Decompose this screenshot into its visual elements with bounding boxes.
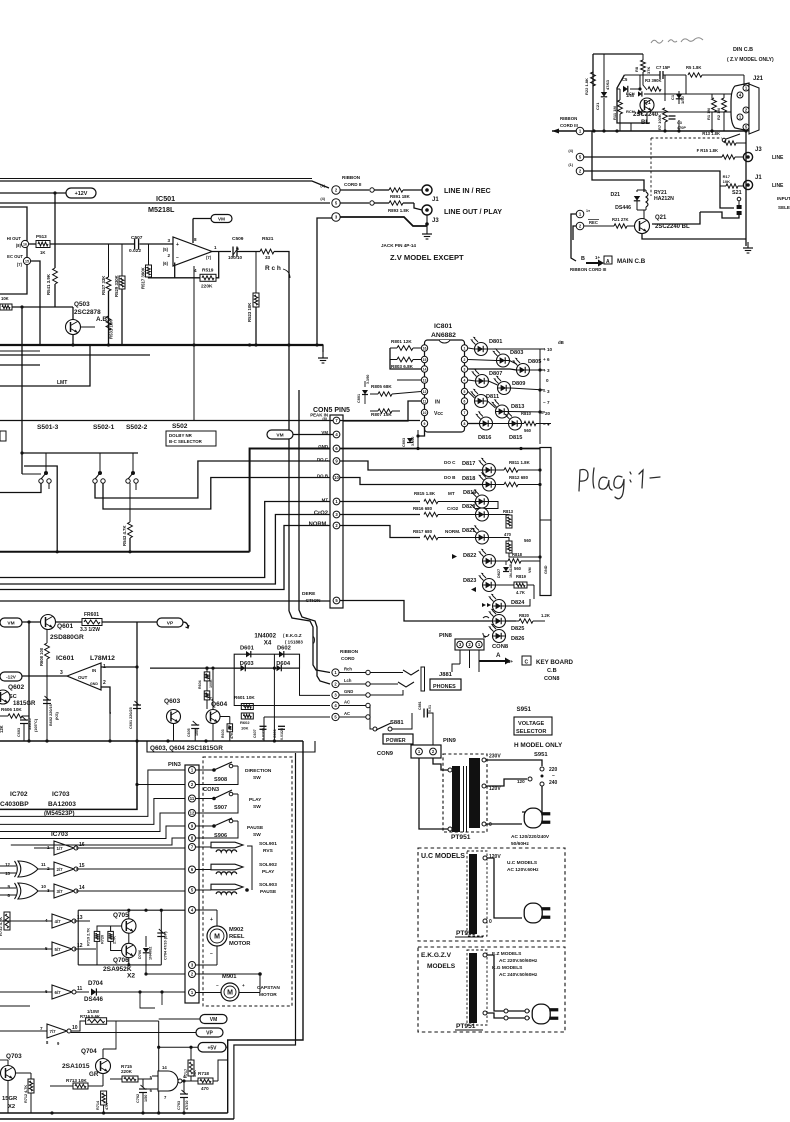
svg-text:3: 3 bbox=[167, 238, 170, 243]
transistor Q503 2SC2878 bbox=[66, 320, 81, 335]
wire rail to ribbon pin 5 bbox=[0, 202, 330, 204]
wire R801 loop bbox=[389, 348, 391, 360]
wire 230V tap bbox=[486, 760, 542, 766]
svg-text:SELECT: SELECT bbox=[778, 205, 790, 210]
capacitor C21 47/63 bbox=[603, 54, 605, 92]
bridge rectifier box bbox=[234, 654, 299, 668]
svg-text:C: C bbox=[525, 660, 529, 666]
svg-text:DO B: DO B bbox=[444, 475, 456, 480]
wire R521 out and down bbox=[274, 252, 289, 612]
svg-text:E.K.G.Z.V: E.K.G.Z.V bbox=[421, 952, 452, 959]
svg-text:− 7: − 7 bbox=[543, 400, 550, 405]
resistor R8 37K bbox=[642, 54, 644, 60]
wire Rch S-curve to pin1 bbox=[289, 611, 330, 673]
svg-text:S908: S908 bbox=[214, 777, 227, 783]
svg-text:1/50: 1/50 bbox=[680, 95, 685, 104]
wire relay to Q21 collector bbox=[643, 210, 645, 219]
capacitor C5 1/50 bbox=[623, 86, 628, 92]
wire AC pin5 row bbox=[264, 716, 330, 718]
svg-text:RIBBON: RIBBON bbox=[340, 649, 359, 654]
svg-text:Q603, Q604 2SC1815GR: Q603, Q604 2SC1815GR bbox=[150, 745, 223, 752]
wire pin2 left row bbox=[146, 973, 185, 975]
svg-text:GND: GND bbox=[318, 444, 328, 449]
svg-text:Q601: Q601 bbox=[57, 623, 73, 630]
svg-text:11: 11 bbox=[190, 796, 195, 801]
svg-text:470P: 470P bbox=[677, 126, 686, 130]
wire left stubs bbox=[0, 920, 20, 922]
svg-text:330/25: 330/25 bbox=[28, 718, 32, 730]
svg-text:J1: J1 bbox=[755, 175, 762, 181]
wire pin5 to J3 bbox=[340, 202, 369, 204]
symbol pause bbox=[483, 633, 489, 637]
wire DERECTION long row bbox=[0, 600, 330, 602]
capacitor C1 1/50 bbox=[676, 94, 682, 99]
switch selector box DOLBY NR B-C SELECTOR bbox=[166, 431, 216, 446]
wire R517 to inverting input bbox=[149, 276, 175, 279]
wire switch2 to DO rows bbox=[95, 461, 330, 498]
svg-text:R521: R521 bbox=[262, 236, 274, 242]
power +12V bbox=[66, 188, 96, 198]
svg-text:+5V: +5V bbox=[207, 1045, 217, 1051]
svg-text:R1 1M: R1 1M bbox=[706, 108, 711, 120]
svg-text:DIRECTION: DIRECTION bbox=[245, 768, 272, 774]
svg-text:B-C SELECTOR: B-C SELECTOR bbox=[169, 439, 203, 444]
wire rails verticals mid bbox=[140, 992, 155, 1008]
wire Q503 emitter bbox=[72, 334, 74, 345]
svg-text:D801: D801 bbox=[489, 339, 502, 345]
svg-text:C1: C1 bbox=[670, 94, 675, 100]
wire rails to con8 bbox=[533, 585, 535, 599]
svg-text:GND: GND bbox=[344, 689, 353, 694]
svg-text:R712 4.7K: R712 4.7K bbox=[24, 1085, 28, 1103]
svg-text:S951: S951 bbox=[517, 706, 532, 713]
svg-text:− ●: − ● bbox=[543, 422, 550, 427]
wire ekgzv plug bbox=[487, 955, 530, 1011]
svg-text:R818: R818 bbox=[512, 552, 523, 557]
LED D813 bbox=[496, 405, 509, 418]
svg-text:2: 2 bbox=[167, 253, 170, 258]
capacitor C704 47/10BP bbox=[160, 910, 162, 965]
gate NAND 901 bbox=[158, 1071, 178, 1091]
svg-text:R812 680: R812 680 bbox=[509, 475, 529, 480]
svg-text:R608 100: R608 100 bbox=[39, 647, 44, 666]
svg-text:R606 10K: R606 10K bbox=[1, 707, 22, 712]
wire q704 emitter bbox=[102, 1074, 104, 1086]
wire pin1B hook bbox=[571, 214, 576, 261]
wire q604 collector up bbox=[212, 668, 214, 709]
LED D824 bbox=[493, 600, 506, 613]
svg-text:OUT: OUT bbox=[78, 675, 88, 680]
svg-text:1.2K: 1.2K bbox=[541, 613, 550, 618]
wire con8 drops bbox=[459, 650, 461, 664]
svg-text:13: 13 bbox=[423, 379, 427, 383]
wire row2 to S21 bbox=[584, 171, 734, 208]
wire led to con8 bbox=[493, 605, 541, 607]
resistor R521 33 bbox=[260, 249, 274, 254]
wire DIN top rail bbox=[593, 53, 643, 55]
svg-text:CON9: CON9 bbox=[377, 751, 394, 757]
svg-text:PHONES: PHONES bbox=[433, 684, 456, 690]
wire uc plug bbox=[487, 858, 522, 918]
LED D805 bbox=[517, 364, 530, 377]
resistor R5 1.8K bbox=[688, 73, 702, 77]
svg-text:−: − bbox=[216, 983, 219, 988]
svg-text:AC 120V.60Hz: AC 120V.60Hz bbox=[507, 867, 539, 873]
wire VM feed bbox=[159, 1018, 200, 1020]
switch S501-3 bbox=[45, 453, 47, 471]
wire CrO2 long row bbox=[0, 515, 330, 585]
svg-text:R543 4.7K: R543 4.7K bbox=[122, 525, 127, 546]
resistor R5xx 10K bbox=[0, 304, 12, 310]
svg-text:AC 120/220/240V: AC 120/220/240V bbox=[511, 834, 550, 840]
svg-text:14: 14 bbox=[162, 1065, 167, 1070]
svg-text:PLAY: PLAY bbox=[249, 797, 262, 803]
svg-text:+: + bbox=[210, 917, 213, 923]
svg-text:(8): (8) bbox=[16, 243, 22, 248]
svg-text:VM: VM bbox=[276, 433, 283, 439]
capacitor B602 220/16 bbox=[43, 699, 51, 701]
svg-text:D815: D815 bbox=[509, 435, 522, 441]
wire cro2 row right bbox=[340, 514, 420, 516]
node ribbon III pin 1B bbox=[576, 210, 584, 218]
node IC801 pin 13 bbox=[421, 377, 427, 383]
svg-text:47K: 47K bbox=[230, 732, 234, 739]
wire do b row right bbox=[340, 478, 482, 485]
svg-text:CAPSTAN: CAPSTAN bbox=[257, 985, 280, 991]
wire norm riser right bbox=[544, 595, 546, 621]
svg-text:VP: VP bbox=[206, 1031, 213, 1037]
svg-text:RIBBON CORD III: RIBBON CORD III bbox=[570, 267, 606, 272]
svg-text:9: 9 bbox=[424, 422, 426, 426]
node ribbon pin 1 Rch bbox=[332, 669, 339, 676]
svg-text:+: + bbox=[176, 242, 179, 248]
svg-text:PT951: PT951 bbox=[456, 1023, 476, 1030]
svg-text:CORD: CORD bbox=[341, 656, 355, 661]
svg-text:AC: AC bbox=[344, 700, 350, 705]
svg-text:6/7: 6/7 bbox=[55, 990, 62, 995]
svg-text:120V: 120V bbox=[489, 854, 501, 860]
gate XOR A bbox=[18, 861, 38, 877]
svg-text:RVS: RVS bbox=[263, 848, 274, 854]
node CON3 pin 12 bbox=[189, 810, 196, 817]
solenoid SOL901 RVS bbox=[196, 846, 211, 848]
svg-text:3: 3 bbox=[47, 888, 50, 893]
wire Q21 emitter to ground rail bbox=[642, 234, 746, 239]
svg-text:CORD III: CORD III bbox=[560, 123, 578, 128]
wire switch1 left out bbox=[0, 483, 41, 493]
svg-text:R717: R717 bbox=[184, 1069, 188, 1078]
node ribbon III arrow bbox=[552, 129, 559, 134]
wire +12V drop bbox=[54, 193, 56, 268]
resistor R814 560 bbox=[506, 541, 512, 553]
node ribbon III pin 2 REC bbox=[576, 222, 584, 230]
svg-text:8: 8 bbox=[464, 422, 466, 426]
node ribbon III pin 5 bbox=[576, 153, 584, 161]
svg-text:DO C: DO C bbox=[444, 460, 456, 465]
box E.K.G.Z.V MODELS bbox=[418, 947, 565, 1032]
svg-text:470: 470 bbox=[201, 1086, 209, 1091]
node IC801 pin 4 bbox=[461, 377, 467, 383]
resistor R529 330K bbox=[121, 244, 123, 276]
svg-text:10K: 10K bbox=[723, 179, 730, 184]
node pin 16 HI OUT bbox=[21, 240, 28, 247]
capacitor C801 3.3/50 bbox=[362, 390, 368, 395]
svg-text:D21: D21 bbox=[610, 192, 620, 198]
svg-text:AC: AC bbox=[344, 711, 350, 716]
svg-text:R523 10K: R523 10K bbox=[247, 302, 252, 322]
svg-text:11: 11 bbox=[77, 986, 83, 992]
resistor R527 33K bbox=[108, 244, 110, 277]
node CON5 pin 2 bbox=[333, 522, 340, 529]
svg-text:(7): (7) bbox=[206, 255, 212, 260]
diode D706 1N4002 bbox=[145, 936, 147, 947]
transistor Q21 2SC2240 BL bbox=[635, 219, 650, 234]
svg-text:R805 68K: R805 68K bbox=[371, 384, 392, 389]
svg-text:1●: 1● bbox=[586, 209, 590, 213]
svg-text:2.7K: 2.7K bbox=[113, 936, 117, 944]
node CON3 pin 1 bbox=[189, 767, 196, 774]
svg-text:3: 3 bbox=[60, 670, 63, 676]
svg-text:D602: D602 bbox=[277, 646, 291, 652]
resistor R523 10K bbox=[255, 252, 257, 294]
node ribbon pin 3 GND bbox=[332, 691, 339, 698]
svg-text:CrO2: CrO2 bbox=[314, 511, 328, 517]
node IC801 pin 7 bbox=[461, 409, 467, 415]
svg-text:1+: 1+ bbox=[508, 659, 513, 664]
wire con3 left feeds bbox=[0, 770, 185, 816]
resistor R803 6.8K bbox=[390, 359, 397, 361]
wire pin8 row to D816 D815 bbox=[468, 423, 480, 425]
wire pin9 bottom bbox=[418, 427, 425, 436]
svg-text:240: 240 bbox=[549, 780, 558, 786]
svg-text:R21 27K: R21 27K bbox=[612, 217, 629, 222]
resistor R720 2.7K bbox=[108, 931, 114, 941]
wire Lch S-curve to pin2 bbox=[299, 390, 330, 684]
svg-text:LINE: LINE bbox=[772, 155, 784, 161]
svg-text:VOLTAGE: VOLTAGE bbox=[518, 721, 544, 727]
svg-text:PIN3: PIN3 bbox=[168, 762, 182, 768]
svg-text:DS446: DS446 bbox=[615, 205, 631, 211]
power oval +5V bbox=[198, 1043, 226, 1053]
svg-text:+: + bbox=[242, 983, 245, 988]
svg-text:DO B: DO B bbox=[317, 474, 328, 479]
wire reg out bbox=[101, 666, 137, 668]
wire pin15 down bbox=[31, 261, 40, 345]
label KEY BOARD bbox=[479, 658, 511, 665]
node IC801 pin 16 bbox=[421, 345, 427, 351]
svg-text:VP: VP bbox=[167, 621, 174, 627]
svg-text:0: 0 bbox=[546, 378, 549, 383]
wire P513 to C507 bbox=[50, 243, 135, 245]
svg-text:R816 680: R816 680 bbox=[413, 506, 433, 511]
resistor R11 1M bbox=[618, 100, 623, 114]
svg-text:C603: C603 bbox=[17, 728, 21, 737]
svg-text:DS446: DS446 bbox=[84, 996, 103, 1003]
node IC801 pin 5 bbox=[461, 388, 467, 394]
svg-text:PIN9: PIN9 bbox=[443, 738, 457, 744]
wire R541 to row bbox=[54, 284, 56, 307]
wire vm row bbox=[22, 621, 42, 623]
node CON5 pin 4 bbox=[333, 431, 340, 438]
svg-text:+ 10: + 10 bbox=[543, 347, 553, 352]
wire MT long row bbox=[0, 502, 330, 578]
plug AC main bbox=[524, 808, 542, 828]
svg-text:M901: M901 bbox=[222, 974, 237, 980]
capacitor C607 0.01/25 bbox=[260, 725, 267, 727]
wire C7 junctions bbox=[639, 75, 641, 89]
svg-text:PAUSE: PAUSE bbox=[247, 825, 264, 831]
svg-text:D825: D825 bbox=[511, 626, 524, 632]
wire switch feed top bbox=[22, 452, 138, 454]
wire q601 base drop bbox=[28, 622, 30, 741]
power VM oval op-amp bbox=[211, 215, 232, 223]
svg-text:Rch: Rch bbox=[344, 667, 352, 672]
resistor R519 220K bbox=[200, 274, 216, 281]
svg-text:47/63: 47/63 bbox=[605, 79, 610, 90]
svg-text:3/7: 3/7 bbox=[57, 889, 64, 894]
svg-text:10: 10 bbox=[334, 475, 339, 480]
wire pin13 left bbox=[397, 379, 421, 381]
node ribbon pin 2 Lch bbox=[332, 680, 339, 687]
dashed relay actuate line bbox=[650, 138, 652, 196]
wire pin16 to P513 bbox=[29, 243, 36, 245]
svg-text:R811 1.8K: R811 1.8K bbox=[509, 460, 531, 465]
svg-text:7: 7 bbox=[40, 1026, 43, 1031]
svg-text:M5218L: M5218L bbox=[148, 205, 175, 214]
svg-text:47/10: 47/10 bbox=[185, 1100, 189, 1110]
resistor R541 3.9K bbox=[53, 268, 58, 284]
svg-text:RIBBON: RIBBON bbox=[342, 175, 361, 180]
svg-text:C881: C881 bbox=[418, 701, 422, 710]
wire VP feed bbox=[71, 1032, 196, 1034]
wire op-amp output bbox=[212, 251, 231, 253]
svg-text:dB: dB bbox=[558, 340, 564, 345]
wire dere row right bbox=[340, 601, 516, 622]
svg-text:D704: D704 bbox=[88, 980, 103, 987]
svg-text:2SC2240 BL: 2SC2240 BL bbox=[655, 224, 690, 230]
resistor R602 10K bbox=[241, 713, 253, 719]
ground bus A thick bbox=[0, 344, 323, 346]
ground jack return bbox=[426, 228, 428, 234]
box Q1 stage outline bbox=[617, 75, 650, 123]
svg-text:2: 2 bbox=[464, 358, 466, 362]
wire DIN bottom rail thick bbox=[552, 130, 746, 132]
node ribbon cord II pin 3 bbox=[332, 213, 340, 221]
svg-text:D823: D823 bbox=[463, 578, 476, 584]
svg-text:−: − bbox=[210, 951, 213, 957]
capacitor C7 15P bbox=[659, 71, 661, 79]
svg-text:1: 1 bbox=[214, 245, 217, 250]
svg-text:220K: 220K bbox=[201, 284, 213, 290]
svg-text:IC702: IC702 bbox=[10, 791, 28, 798]
capacitor C507 0.022 bbox=[134, 239, 136, 250]
svg-text:560: 560 bbox=[524, 538, 532, 543]
svg-text:D807: D807 bbox=[489, 371, 502, 377]
svg-text:R801 12K: R801 12K bbox=[391, 339, 412, 344]
svg-text:( 1S1883: ( 1S1883 bbox=[285, 640, 303, 645]
wire J21 vertical bbox=[745, 53, 747, 86]
svg-text:X2: X2 bbox=[8, 1104, 15, 1110]
power oval VM bottom bbox=[200, 1015, 227, 1024]
svg-text:( E.K.G.Z: ( E.K.G.Z bbox=[283, 633, 302, 638]
svg-text:100/10: 100/10 bbox=[228, 255, 242, 260]
resistor R22 1.8K bbox=[591, 72, 596, 86]
svg-text:15: 15 bbox=[25, 260, 29, 264]
power oval VP bottom bbox=[196, 1028, 223, 1037]
jack J3 LINE OUT/PLAY bbox=[422, 205, 432, 215]
node CON5 pin 7 bbox=[333, 417, 340, 424]
wire pin2 to J1 bbox=[340, 189, 369, 191]
svg-text:R819: R819 bbox=[516, 574, 527, 579]
wire row 365 bbox=[0, 364, 40, 366]
svg-text:C507: C507 bbox=[131, 235, 143, 241]
svg-text:PLAY: PLAY bbox=[262, 869, 275, 875]
svg-text:L78M12: L78M12 bbox=[90, 655, 115, 662]
svg-text:0: 0 bbox=[489, 822, 492, 828]
resistor P513 1K bbox=[36, 241, 50, 248]
svg-text:D822: D822 bbox=[463, 553, 476, 559]
svg-text:GND: GND bbox=[90, 682, 98, 686]
svg-text:MT: MT bbox=[322, 498, 329, 503]
svg-text:A: A bbox=[606, 259, 610, 265]
svg-text:11: 11 bbox=[41, 862, 46, 867]
svg-text:M: M bbox=[227, 989, 233, 996]
svg-text:P513: P513 bbox=[36, 234, 47, 239]
svg-text:10K: 10K bbox=[1, 296, 9, 301]
node CON3 pin 7 bbox=[189, 844, 196, 851]
svg-text:IC801: IC801 bbox=[434, 323, 452, 330]
wire Q1 emitter down bbox=[646, 112, 648, 123]
switch S907 play bbox=[212, 797, 216, 801]
svg-text:1N4002: 1N4002 bbox=[149, 947, 153, 960]
svg-text:R527 33K: R527 33K bbox=[101, 275, 106, 295]
svg-text:470: 470 bbox=[504, 532, 512, 537]
svg-text:U.C MODELS: U.C MODELS bbox=[507, 860, 538, 866]
svg-text:BL: BL bbox=[641, 120, 649, 126]
svg-text:0.01/25: 0.01/25 bbox=[280, 728, 284, 740]
svg-text:R720: R720 bbox=[101, 935, 105, 944]
connector CON5 strip bbox=[330, 415, 343, 608]
svg-text:EC OUT: EC OUT bbox=[7, 254, 23, 259]
svg-text:Vcc: Vcc bbox=[434, 411, 443, 417]
svg-text:6: 6 bbox=[464, 400, 466, 404]
wire J21 rail down bbox=[745, 131, 747, 246]
wire top rail to ribbon pin 2 bbox=[0, 181, 329, 188]
svg-text:3.3 1/2W: 3.3 1/2W bbox=[80, 627, 100, 633]
svg-text:AN6882: AN6882 bbox=[431, 332, 456, 339]
svg-text:0: 0 bbox=[489, 919, 492, 925]
wire r716 rail down bbox=[158, 1021, 160, 1113]
wire fr601 to vp bbox=[102, 621, 157, 623]
svg-text:220K: 220K bbox=[121, 1069, 133, 1074]
node ribbon cord II pin 5 bbox=[332, 199, 340, 207]
svg-text:R893 1.8K: R893 1.8K bbox=[388, 208, 410, 213]
handwriting scribble top bbox=[651, 38, 703, 43]
svg-text:S502: S502 bbox=[172, 423, 188, 430]
svg-text:VM: VM bbox=[528, 567, 532, 573]
svg-text:Lch: Lch bbox=[344, 678, 352, 683]
wire pin3 thick to jack ground bbox=[340, 217, 427, 226]
wire verticals to lower rows bbox=[193, 266, 195, 421]
svg-text:5/7: 5/7 bbox=[55, 947, 62, 952]
wire bridge feed row bbox=[150, 667, 241, 669]
svg-text:D817: D817 bbox=[462, 461, 475, 467]
node IC801 pin 15 bbox=[421, 356, 427, 362]
svg-text:REEL: REEL bbox=[229, 934, 245, 940]
wire rail pair bbox=[544, 348, 546, 350]
svg-text:KEY BOARD: KEY BOARD bbox=[536, 659, 574, 666]
LED D811 bbox=[475, 395, 488, 408]
